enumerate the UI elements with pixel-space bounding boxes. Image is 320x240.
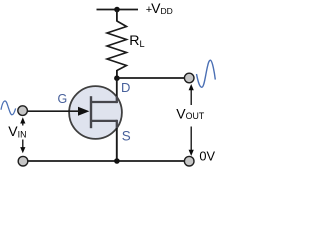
dimension arrow: VOUT (up head) <box>189 84 194 90</box>
wire: drain lead (into circle) <box>116 78 118 97</box>
svg-text:S: S <box>122 128 131 143</box>
svg-text:RL: RL <box>129 33 144 49</box>
transistor Q1: source tap bar <box>92 120 117 122</box>
svg-text:0V: 0V <box>199 149 215 164</box>
input sine waveform icon <box>1 101 16 115</box>
dimension arrow: VIN (up head) <box>20 117 25 123</box>
svg-text:+VDD: +VDD <box>146 0 173 16</box>
transistor Q1: gate arrowhead <box>78 107 89 116</box>
terminal: bottom-right 0V terminal <box>184 156 194 166</box>
dimension arrow: VOUT (down head) <box>189 150 194 156</box>
node: VDD junction dot <box>114 7 120 13</box>
dimension arrow: VIN upper shaft <box>22 123 24 126</box>
svg-text:D: D <box>121 80 130 95</box>
terminal: bottom-left 0V terminal <box>18 156 28 166</box>
svg-text:VOUT: VOUT <box>176 105 205 121</box>
node: drain junction dot <box>114 75 120 81</box>
wire: bottom 0V rail <box>28 160 185 162</box>
wire: resistor RL to drain node <box>116 70 118 78</box>
wire: source lead down to 0V rail <box>116 120 118 129</box>
terminal: VOUT output terminal <box>184 73 194 83</box>
svg-text:G: G <box>58 92 68 106</box>
transistor Q1: N-channel MOSFET (circle body) <box>69 86 122 139</box>
transistor Q1: drain tap bar <box>92 101 117 103</box>
dimension arrow: VIN lower shaft <box>22 140 24 149</box>
dimension arrow: VOUT upper shaft <box>190 89 192 105</box>
transistor Q1: channel bar <box>90 96 92 128</box>
svg-text:VIN: VIN <box>8 123 26 139</box>
node: source/0V junction dot <box>114 158 120 164</box>
output sine waveform icon <box>197 60 216 87</box>
terminal: VIN input terminal <box>18 106 28 116</box>
wire: drain node to output terminal <box>117 77 185 79</box>
resistor RL <box>107 21 127 71</box>
wire: +VDD top rail <box>97 9 139 11</box>
wire: gate wire from input terminal <box>27 110 80 112</box>
dimension arrow: VIN (down head) <box>20 147 25 153</box>
dimension arrow: VOUT lower shaft <box>190 127 192 151</box>
wire: VDD rail to resistor RL <box>116 10 118 22</box>
